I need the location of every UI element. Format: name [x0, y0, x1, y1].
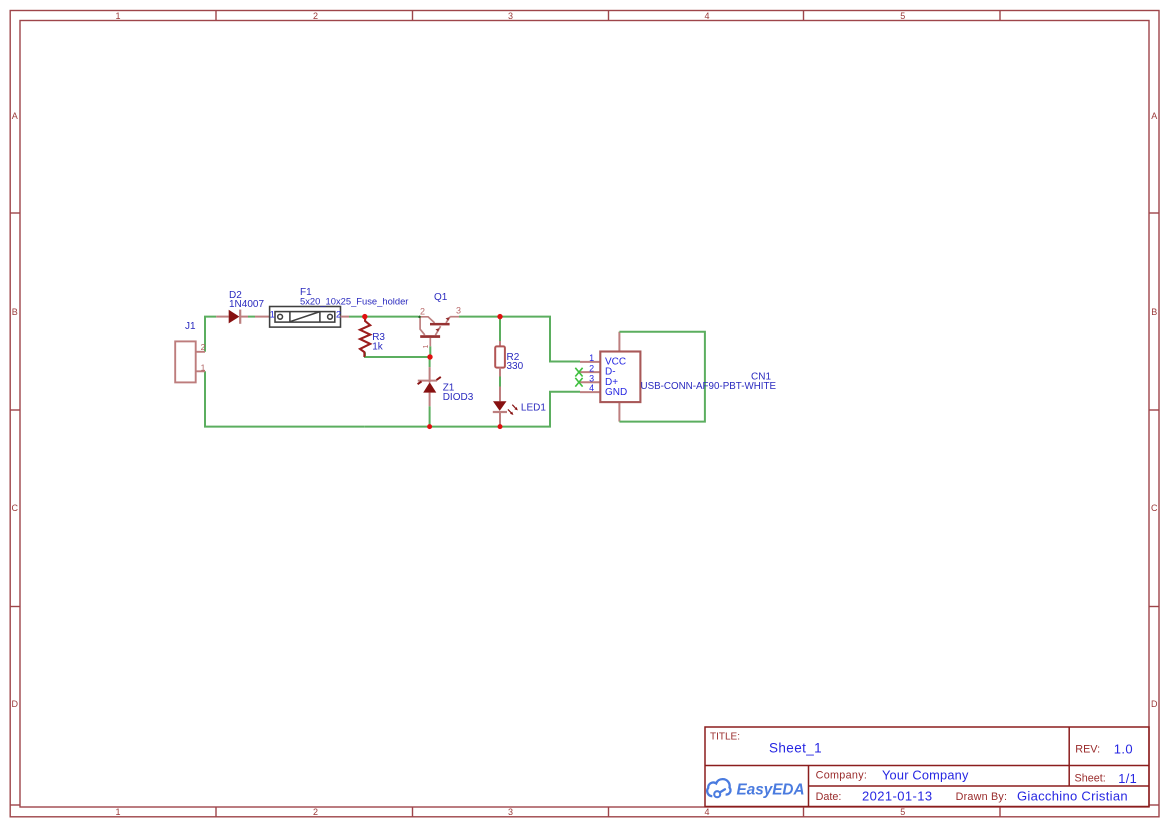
svg-text:3: 3 — [589, 373, 594, 383]
junction at R2 top / top rail — [497, 314, 502, 319]
svg-text:1.0: 1.0 — [1114, 741, 1133, 756]
svg-text:USB-CONN-AF90-PBT-WHITE: USB-CONN-AF90-PBT-WHITE — [641, 381, 777, 392]
svg-text:Drawn By:: Drawn By: — [956, 791, 1008, 803]
svg-text:B: B — [1151, 307, 1157, 317]
svg-text:Giacchino Cristian: Giacchino Cristian — [1017, 789, 1128, 804]
svg-text:5: 5 — [900, 11, 905, 21]
wire Z1 top — [429, 357, 431, 367]
svg-text:5: 5 — [900, 807, 905, 817]
row ticks left — [10, 212, 20, 214]
svg-text:A: A — [1151, 111, 1157, 121]
svg-text:J1: J1 — [185, 321, 196, 332]
pin numbers — [589, 353, 594, 393]
F1 pin numbers — [270, 309, 341, 319]
svg-text:4: 4 — [704, 11, 709, 21]
svg-text:2: 2 — [420, 307, 425, 317]
zener Z1 — [418, 367, 441, 406]
svg-text:2: 2 — [201, 342, 206, 352]
svg-text:Q1: Q1 — [434, 292, 448, 303]
fuse F1 — [270, 307, 341, 328]
svg-text:330: 330 — [507, 361, 524, 372]
shield wire rectangle — [619, 332, 705, 422]
symbol box — [600, 352, 640, 403]
svg-text:Company:: Company: — [816, 770, 868, 782]
row ticks right — [1149, 212, 1159, 214]
resistor R3 zigzag — [360, 317, 370, 357]
svg-text:A: A — [12, 111, 18, 121]
transistor Q1 — [419, 317, 459, 347]
svg-text:TITLE:: TITLE: — [710, 732, 740, 743]
wire R3 bottom to Q1 emitter — [365, 352, 430, 357]
svg-text:LED1: LED1 — [521, 403, 546, 414]
wire Q1 pin3 to x550 — [459, 317, 580, 362]
diode D2 — [216, 310, 269, 324]
pin names — [605, 356, 627, 398]
svg-text:REV:: REV: — [1075, 744, 1100, 756]
wire J1 pin2 to top rail — [205, 317, 216, 352]
svg-text:5x20_10x25_Fuse_holder: 5x20_10x25_Fuse_holder — [300, 296, 408, 307]
svg-text:C: C — [1151, 503, 1158, 513]
svg-text:1: 1 — [115, 807, 120, 817]
column ticks bottom — [215, 807, 217, 817]
EasyEDA logo — [707, 779, 730, 797]
J1 pin numbers — [201, 342, 206, 373]
fuse right lead — [341, 316, 350, 318]
svg-text:2: 2 — [313, 807, 318, 817]
svg-text:Sheet:: Sheet: — [1075, 772, 1106, 784]
svg-text:3: 3 — [456, 306, 461, 316]
connector J1 — [175, 341, 205, 382]
svg-text:DIOD3: DIOD3 — [443, 392, 474, 403]
svg-text:2: 2 — [313, 11, 318, 21]
svg-text:2: 2 — [336, 309, 341, 319]
wire diode to fuse — [248, 316, 255, 318]
svg-text:1: 1 — [589, 353, 594, 363]
svg-text:3: 3 — [508, 807, 513, 817]
Q1 pin numbers — [420, 306, 461, 349]
wire Q1 emitter segment — [429, 346, 431, 357]
junction at Z1 bottom / bottom rail — [427, 424, 432, 429]
svg-text:B: B — [12, 307, 18, 317]
svg-text:2021-01-13: 2021-01-13 — [862, 789, 933, 804]
svg-text:1: 1 — [201, 362, 206, 372]
svg-text:D: D — [12, 699, 19, 709]
junction at Q1 emitter / R3 bottom — [427, 354, 432, 359]
svg-text:C: C — [12, 503, 19, 513]
wire R2 to LED — [499, 377, 501, 387]
no-connect X on pin 2 (D-) — [575, 368, 582, 377]
svg-text:Your Company: Your Company — [882, 768, 969, 783]
LED1 — [493, 387, 518, 426]
svg-text:1N4007: 1N4007 — [229, 299, 264, 310]
junction at R3 top / top rail — [362, 314, 367, 319]
svg-text:2: 2 — [589, 363, 594, 373]
svg-text:1: 1 — [270, 309, 275, 319]
svg-text:D: D — [1151, 699, 1158, 709]
svg-text:Date:: Date: — [816, 791, 842, 803]
svg-text:1: 1 — [423, 345, 430, 349]
svg-text:1k: 1k — [372, 342, 384, 353]
resistor R2 — [495, 341, 505, 377]
svg-text:4: 4 — [589, 383, 594, 393]
svg-text:3: 3 — [508, 11, 513, 21]
wire J1 pin1 to bottom rail — [205, 371, 365, 426]
pin leads — [580, 332, 619, 422]
column ticks top — [215, 11, 217, 21]
wire bottom rail — [365, 392, 580, 427]
wire Z1 bottom — [429, 406, 431, 426]
Q1 pin2 dot — [418, 316, 421, 319]
svg-text:1: 1 — [115, 11, 120, 21]
USB connector CN1 — [575, 332, 705, 422]
no-connect X on pin 3 (D+) — [575, 378, 582, 387]
svg-text:Sheet_1: Sheet_1 — [769, 741, 822, 756]
wire fuse to Q1 — [349, 316, 418, 318]
wire R2 top — [499, 317, 501, 341]
svg-text:GND: GND — [605, 387, 627, 398]
svg-text:4: 4 — [704, 807, 709, 817]
svg-text:EasyEDA: EasyEDA — [737, 782, 805, 799]
junction at LED1 bottom / bottom rail — [498, 424, 503, 429]
svg-text:1/1: 1/1 — [1118, 771, 1137, 786]
